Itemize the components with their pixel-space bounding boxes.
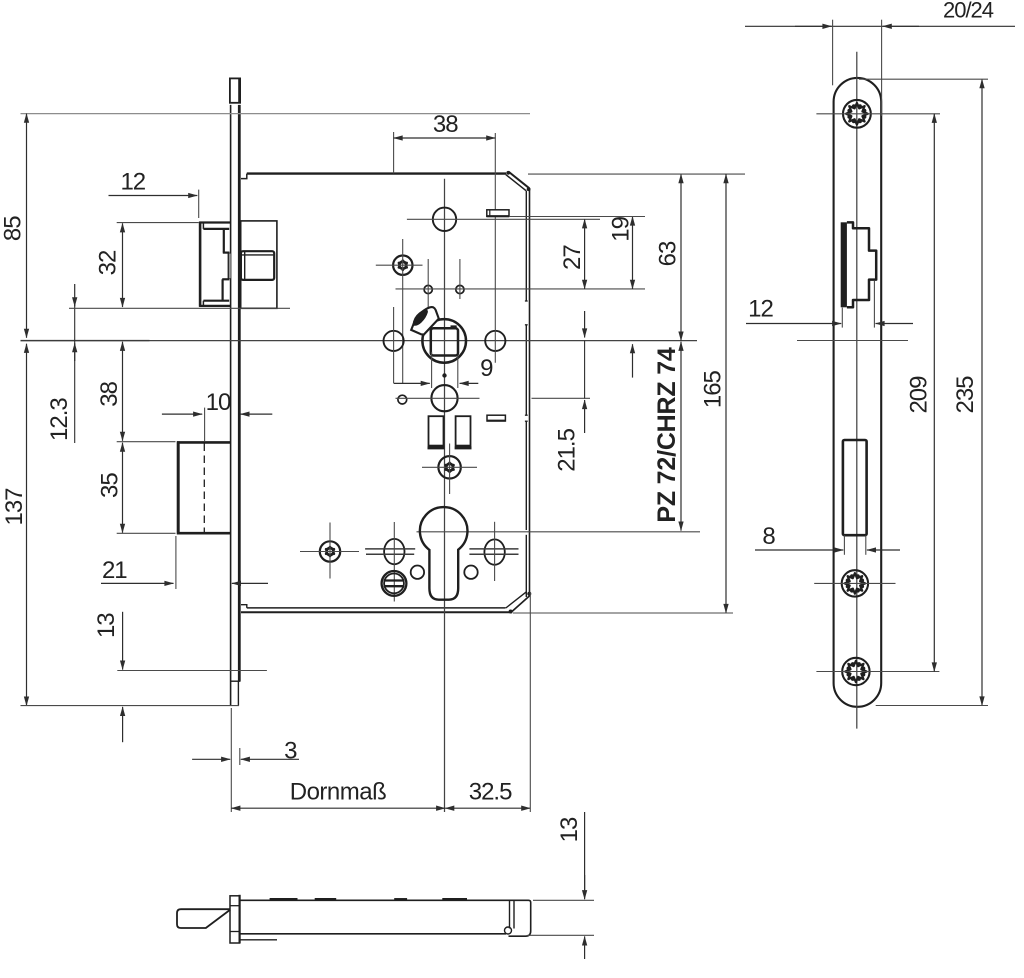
case top-right chamfer inner: [506, 175, 526, 191]
svg-text:13: 13: [556, 817, 583, 842]
svg-text:165: 165: [700, 370, 727, 408]
latch head bottom lip: [203, 300, 229, 302]
dim 13 bottom: [584, 812, 586, 897]
dim 85: [26, 114, 28, 338]
latch bolt head square: [241, 251, 274, 280]
guide pin holes small: [424, 285, 432, 293]
spring guide left: [429, 416, 444, 445]
dim 10: [162, 413, 202, 415]
fixing hole right centerline: [494, 133, 496, 210]
dim 9: [394, 382, 430, 384]
latch head front edge: [199, 222, 202, 307]
deadbolt bottom edge: [177, 532, 231, 535]
svg-text:13: 13: [93, 613, 120, 638]
case top-right chamfer outer: [509, 172, 529, 188]
plate mid reference line: [797, 340, 908, 342]
slotted grub screw: [382, 571, 407, 596]
upper extension line 85: [21, 113, 531, 115]
guide pin crosshair h: [396, 288, 646, 290]
dim 21: [101, 582, 174, 584]
top hole crosshair: [407, 218, 600, 220]
case top edge: [247, 172, 506, 174]
cylinder centerline h: [417, 531, 701, 533]
bottom view faceplate bar: [230, 896, 240, 943]
plate bottom screw crosshair: [816, 671, 939, 673]
latch head outer top: [199, 221, 230, 223]
screw M3 with crosshair: [320, 541, 340, 561]
locking pin dot: [442, 373, 446, 377]
case bottom edge outer: [241, 611, 512, 613]
svg-text:9: 9: [480, 355, 493, 382]
svg-text:63: 63: [654, 241, 681, 266]
guide pin crosshair v2: [459, 259, 461, 299]
latch head outer bottom: [199, 305, 230, 307]
dim PZ72 span: [680, 342, 682, 531]
svg-text:235: 235: [952, 376, 979, 414]
plate latch cutout: [841, 222, 847, 307]
slot tab lower: [487, 415, 505, 421]
dim Dornmass: [231, 807, 445, 809]
small hole below oval right: [464, 566, 477, 579]
change lever hole: [431, 385, 457, 411]
case right edge slot ticks: [525, 300, 528, 302]
plate centerline: [856, 52, 858, 729]
spring guide right: [456, 416, 471, 445]
bottom view latch beak: [177, 909, 231, 928]
plate middle screw crosshair: [814, 582, 895, 584]
dim 63: [680, 174, 682, 341]
dim 21.5: [584, 311, 586, 338]
dim 13 left: [122, 612, 124, 670]
latch head top lip: [203, 228, 229, 230]
dim 3 stulp: [192, 758, 230, 760]
dim 209: [933, 114, 935, 672]
case right edge outer: [529, 188, 531, 592]
dim 27: [584, 219, 586, 289]
svg-text:35: 35: [97, 473, 124, 498]
case right edge inner: [525, 191, 527, 301]
svg-text:Dornmaß: Dornmaß: [290, 779, 387, 806]
screw M2 with crosshair: [438, 456, 460, 478]
bottom view tabs: [270, 898, 298, 900]
oval centerline left: [393, 522, 395, 602]
follower square hole: [431, 328, 458, 355]
dim 137: [26, 344, 28, 706]
dim 165: [725, 174, 727, 613]
faceplate lower tongue front edge: [237, 681, 239, 705]
svg-text:19: 19: [607, 216, 634, 241]
faceplate main strip left edge: [230, 105, 232, 706]
case bottom-right chamfer inner: [506, 592, 527, 608]
fixing hole right: [485, 331, 505, 351]
latch square inner top line: [241, 254, 273, 256]
top hole circle: [433, 208, 456, 231]
fixing hole left: [384, 331, 404, 351]
svg-text:27: 27: [559, 245, 586, 270]
deadbolt top edge: [177, 441, 231, 444]
case bottom-left step: [241, 605, 247, 608]
plate deadbolt cutout: [843, 440, 867, 535]
deadbolt dashed axis: [203, 444, 205, 533]
latch square inner left line: [244, 252, 246, 280]
deadbolt front edge: [177, 441, 180, 534]
bottom view case right end: [509, 900, 531, 936]
svg-text:21.5: 21.5: [554, 428, 581, 471]
oval guide lines right: [469, 548, 518, 550]
centerline follower horizontal: [21, 340, 150, 342]
guide pin crosshair v1: [427, 259, 429, 321]
svg-text:21: 21: [102, 557, 127, 584]
case bottom edge inner: [247, 607, 506, 609]
dim 8: [755, 549, 843, 551]
main vertical centerline: [444, 179, 446, 812]
svg-text:32: 32: [95, 250, 122, 275]
handle screw oval left: [384, 539, 404, 564]
dim 35: [122, 443, 124, 533]
dim 19: [632, 217, 634, 289]
svg-text:3: 3: [284, 737, 297, 764]
dim 38 top: [394, 137, 496, 139]
case bottom-right chamfer outer: [510, 595, 530, 613]
svg-text:209: 209: [906, 376, 933, 414]
dim 32 latch height: [122, 223, 124, 307]
small hole below oval left: [411, 566, 424, 579]
dim 20/24: [745, 25, 1015, 27]
svg-text:10: 10: [206, 389, 231, 416]
dim 12 latch: [109, 195, 198, 197]
svg-text:12: 12: [748, 296, 773, 323]
dim 32.5: [445, 807, 530, 809]
plate bottom screw: [842, 658, 869, 685]
bottom view case bottom edge: [240, 933, 506, 935]
handle screw oval right: [484, 539, 504, 564]
svg-text:85: 85: [0, 216, 27, 241]
change lever crosshair: [396, 397, 480, 399]
dim 38 left: [122, 342, 124, 441]
plate middle screw: [842, 570, 868, 596]
fixing hole left centerline: [393, 132, 395, 173]
svg-text:12.3: 12.3: [46, 398, 73, 441]
follower hub: [422, 319, 466, 363]
screw M1 with crosshair: [393, 256, 412, 275]
follower pawl: [411, 307, 439, 334]
svg-text:38: 38: [433, 111, 458, 138]
faceplate main strip front edge: [238, 105, 241, 681]
bottom view case top edge: [240, 899, 529, 901]
oval guide lines left: [365, 548, 415, 550]
faceplate top tab: [230, 78, 240, 102]
case top-left step: [241, 174, 247, 179]
svg-text:38: 38: [96, 381, 123, 406]
svg-text:32.5: 32.5: [469, 779, 512, 806]
plate outline: [834, 78, 882, 707]
latch head step upper: [223, 229, 225, 253]
latch tail box: [241, 221, 277, 308]
small hole left of change lever: [398, 395, 407, 404]
svg-text:137: 137: [1, 488, 28, 526]
euro profile cylinder hole: [420, 507, 468, 600]
plate top screw crosshair: [816, 113, 940, 115]
svg-text:12: 12: [120, 169, 145, 196]
latch head bevel face: [228, 253, 230, 279]
oval centerline right: [494, 522, 496, 581]
latch head step lower: [222, 278, 229, 280]
dim 235: [981, 79, 983, 705]
plate top screw: [843, 100, 871, 128]
bottom view left lower lip: [240, 939, 277, 941]
dim 12.3: [74, 284, 76, 306]
faceplate bridge at lower screw: [231, 680, 241, 682]
slot tab upper: [487, 210, 509, 217]
svg-text:PZ 72/CHRZ 74: PZ 72/CHRZ 74: [653, 347, 681, 523]
dim 12 plate: [746, 323, 841, 325]
svg-text:20/24: 20/24: [943, 0, 994, 23]
svg-text:8: 8: [762, 523, 775, 550]
